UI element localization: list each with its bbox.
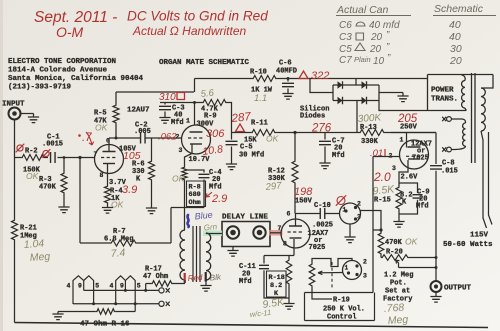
svg-text:Mfd: Mfd [416, 203, 429, 211]
R-8 label box 680 Ohm [187, 181, 206, 207]
wire primary bottom to R-17 [184, 280, 186, 283]
R-19 wiper arrow [318, 271, 343, 275]
svg-text:R-19: R-19 [333, 297, 350, 305]
svg-text:OK: OK [26, 171, 39, 181]
svg-text:R-20: R-20 [386, 249, 403, 257]
wire left rail to bottom [14, 241, 16, 323]
svg-text:C-8: C-8 [442, 160, 455, 168]
wire top rail [195, 78, 428, 80]
resistor R-9 [202, 100, 227, 106]
svg-text:Mfd: Mfd [171, 119, 184, 127]
svg-text:306: 306 [206, 128, 225, 140]
diode bridge rectangle [333, 85, 379, 101]
R-18 label box [267, 271, 287, 297]
svg-text:6: 6 [287, 211, 291, 218]
svg-text:R-5: R-5 [94, 110, 107, 118]
node plate rail [193, 101, 196, 104]
R-19 mechanical link dashed [331, 262, 333, 289]
svg-text:C-5: C-5 [240, 144, 253, 152]
R-19 enclosure box [305, 293, 375, 321]
red zero mark above C-1 [43, 150, 49, 156]
svg-text:ORGAN MATE SCHEMATIC: ORGAN MATE SCHEMATIC [159, 59, 250, 67]
svg-text:20: 20 [369, 44, 382, 55]
svg-text:Blk: Blk [209, 272, 222, 282]
tube V1 triode 12AU7a [95, 145, 124, 174]
capacitor C-5 filter [231, 133, 233, 140]
wire wiper to output [399, 267, 437, 269]
wire secondary top to delay line [205, 232, 207, 235]
diode D1 [338, 81, 343, 89]
svg-text:R-11: R-11 [251, 120, 268, 128]
socket S2 connector [343, 261, 362, 280]
ground at socket S1 [349, 224, 351, 237]
svg-text:40: 40 [449, 19, 461, 31]
resistor R-7 [80, 242, 171, 244]
wire V2 cathode down [185, 144, 193, 166]
svg-text:30 Mfd: 30 Mfd [239, 152, 264, 160]
power transformer box label [428, 75, 494, 111]
wire V3 plate to C-10 [296, 214, 340, 227]
ground at C-3 [159, 118, 170, 124]
capacitor C-10 [320, 208, 325, 219]
svg-text:Plain: Plain [354, 55, 371, 64]
svg-text:(213)-393-9719: (213)-393-9719 [8, 84, 72, 92]
wire socket S1 to volume network [361, 211, 382, 233]
tube V2 triode 12AU7b [182, 125, 211, 154]
svg-text:1: 1 [400, 137, 404, 144]
capacitor C-6 filter [287, 77, 290, 80]
svg-text:330K: 330K [361, 138, 379, 146]
input jack J1 [9, 108, 21, 120]
svg-text:4: 4 [67, 283, 71, 290]
capacitor C-11 [263, 256, 265, 264]
ground at bridge [402, 93, 404, 97]
capacitor C-1 [51, 152, 56, 163]
svg-text:20: 20 [449, 55, 462, 67]
svg-text:2: 2 [363, 259, 367, 266]
svg-text:POWER: POWER [431, 87, 454, 95]
svg-text:276: 276 [311, 123, 332, 135]
svg-text:Actual Ω Handwritten: Actual Ω Handwritten [132, 24, 247, 38]
svg-text:40: 40 [449, 31, 461, 43]
svg-text:2.9: 2.9 [211, 193, 227, 205]
heater terminal x2 [159, 301, 164, 306]
delay line connector right [253, 226, 265, 238]
svg-text:680: 680 [189, 191, 201, 199]
svg-text:O-M: O-M [56, 24, 84, 40]
svg-text:1: 1 [343, 207, 347, 214]
wire V4 plate lead [406, 133, 408, 148]
svg-text:20: 20 [370, 32, 383, 43]
output transformer secondary [206, 233, 211, 280]
resistor R-5 [115, 92, 117, 104]
svg-text:R-13: R-13 [360, 124, 377, 132]
wire V2 plate up to rail [194, 103, 196, 126]
svg-text:1814-A Colorado Avenue: 1814-A Colorado Avenue [8, 67, 108, 75]
svg-text:Diodes: Diodes [300, 113, 325, 121]
svg-text:Schematic: Schematic [434, 3, 484, 15]
wire V4 cathode [399, 160, 408, 186]
ground at R-4 [107, 204, 109, 208]
wire V4 grid [373, 156, 400, 158]
wire input down to grid line [14, 120, 16, 158]
svg-text:.062: .062 [158, 132, 177, 143]
diode D3 [338, 97, 343, 105]
resistor R-16 hum balance [58, 311, 135, 313]
wire cathode to output transformer [184, 181, 186, 230]
svg-text:R-18: R-18 [269, 274, 285, 282]
ground at input jack [33, 114, 35, 118]
svg-text:OK: OK [172, 174, 185, 184]
svg-text:198: 198 [294, 186, 313, 198]
svg-text:6.8 Meg: 6.8 Meg [104, 236, 133, 244]
red value 322 with triangle [299, 71, 308, 79]
svg-text:30: 30 [450, 43, 462, 55]
ground at C-7 [319, 163, 330, 169]
svg-text:C-6: C-6 [279, 60, 292, 68]
svg-text:.015: .015 [441, 168, 458, 176]
node C-7 junction [293, 131, 296, 134]
ground at C-5 [226, 164, 237, 170]
svg-text:Actual Can: Actual Can [336, 4, 389, 16]
red note 2.9 with arrow [206, 192, 212, 197]
resistor R-17 [146, 283, 185, 285]
svg-text:C6: C6 [339, 20, 352, 31]
svg-text:Mfd: Mfd [209, 184, 222, 192]
svg-text:8: 8 [283, 241, 287, 248]
svg-text:Ohm: Ohm [189, 199, 201, 207]
svg-text:470K: 470K [385, 239, 403, 247]
svg-text:Grn: Grn [203, 222, 218, 232]
svg-text:2: 2 [357, 201, 361, 208]
svg-text:1.1: 1.1 [254, 93, 267, 104]
resistor R-19 pot element [309, 263, 315, 287]
heater terminal x1 [159, 288, 164, 293]
dark wire tick Blk [205, 272, 207, 282]
svg-text:1.2 Meg: 1.2 Meg [384, 272, 413, 280]
svg-text:R-15: R-15 [374, 197, 391, 205]
wire bridge top to rail [355, 79, 357, 86]
diode D2 [362, 81, 367, 89]
svg-text:C5: C5 [339, 44, 352, 55]
ground at output transformer [200, 286, 211, 292]
wire V1 cathode [107, 164, 109, 186]
resistor R-11 [251, 130, 276, 136]
ground at R-3 [58, 207, 69, 213]
svg-text:2: 2 [176, 134, 180, 141]
transformer heater winding with terminals [447, 117, 452, 122]
svg-text:TRANS.: TRANS. [431, 96, 458, 104]
wire B+ rail2 C-3 to corner [160, 102, 202, 104]
svg-text:Meg: Meg [387, 314, 408, 327]
svg-text:470K: 470K [39, 184, 57, 192]
svg-text:310: 310 [159, 92, 176, 103]
node at R-3 tap [63, 156, 66, 159]
svg-text:287: 287 [230, 111, 252, 125]
resistor R-10 [252, 76, 277, 82]
socket S1 connector [340, 203, 361, 224]
R-19 pot wiring [312, 259, 352, 267]
wire secondary bottom to ground [205, 280, 207, 286]
svg-text:OUTPUT: OUTPUT [444, 285, 472, 293]
wire rail3 R-11 to R-13 [232, 132, 437, 134]
resistor R-4 [105, 185, 111, 204]
svg-text:322: 322 [311, 70, 329, 82]
svg-text:.01: .01 [370, 148, 383, 159]
ground at output jack [435, 292, 437, 297]
svg-text:Blue: Blue [194, 210, 213, 222]
svg-text:2.0: 2.0 [373, 170, 391, 184]
bottom rail wire [15, 323, 489, 328]
wire bridge bottom to transformer [379, 101, 466, 111]
svg-text:5.6: 5.6 [200, 88, 215, 100]
wire bridge right to ground [379, 92, 403, 94]
svg-text:3: 3 [363, 273, 367, 280]
wire bridge B+ takeoff to R-13 [356, 101, 358, 133]
ground at R-6 [146, 208, 157, 214]
svg-text:50-60 Watts: 50-60 Watts [443, 241, 493, 249]
resistor R-12 [294, 133, 296, 161]
heater wire upper [84, 289, 159, 291]
resistor R-2 [21, 155, 45, 161]
svg-text:250V: 250V [400, 124, 418, 132]
svg-text:8.2: 8.2 [270, 282, 282, 290]
resistor R-8 cathode [182, 166, 187, 181]
heater winding tube V1 pins 4 9 5 [73, 276, 94, 304]
green highlighted wire to delay line [203, 231, 222, 237]
resistor R-15 [396, 186, 402, 210]
svg-text:47 Ohm R-16: 47 Ohm R-16 [80, 321, 130, 329]
wire plate line to C-2 and V2 grid [109, 137, 182, 139]
wire plate rail V4 [391, 132, 436, 134]
svg-text:Meg: Meg [29, 251, 50, 264]
transformer core [472, 73, 476, 163]
svg-text:R-21: R-21 [20, 225, 37, 233]
capacitor C-2 [141, 133, 146, 144]
svg-text:DELAY LINE: DELAY LINE [222, 214, 268, 222]
ground at R-16 [57, 312, 59, 315]
svg-text:9: 9 [120, 283, 124, 290]
svg-text:.768: .768 [383, 302, 404, 315]
output jack J2 [431, 281, 442, 292]
svg-text:7025: 7025 [309, 244, 326, 252]
svg-text:.005: .005 [134, 128, 151, 136]
resistor 470K R-20 upper [378, 232, 384, 255]
capacitor C-8 coupling [435, 133, 437, 165]
red wire tick [184, 273, 186, 283]
svg-text:3.9: 3.9 [122, 184, 137, 196]
svg-text:300K: 300K [357, 112, 382, 125]
delay line connector left [227, 226, 239, 238]
svg-text:R-2: R-2 [25, 148, 38, 156]
node R-5 to plate [115, 137, 118, 140]
svg-text:1: 1 [345, 265, 349, 272]
R-20 wiper arrow [396, 260, 399, 267]
wire down to R-7 rail [170, 208, 172, 244]
svg-text:OK: OK [266, 134, 279, 144]
svg-text:Pot.: Pot. [390, 280, 407, 288]
ground at C-6 [282, 94, 293, 100]
svg-text:7: 7 [94, 151, 98, 158]
wire left rail down to R-21 [14, 158, 16, 220]
svg-text:12AU7: 12AU7 [127, 107, 150, 115]
svg-text:8: 8 [100, 172, 104, 179]
output transformer core [193, 226, 200, 282]
wire C-4 bottom to bias rail [171, 207, 204, 209]
svg-text:Santa Monica, California 90404: Santa Monica, California 90404 [8, 75, 144, 83]
wire rail to bridge [310, 79, 333, 93]
red note .7 with arrow [78, 134, 81, 137]
wire V1 plate up [108, 138, 110, 152]
svg-text:Mfd: Mfd [332, 152, 345, 160]
svg-text:9: 9 [78, 283, 82, 290]
ground at R-18 [283, 304, 294, 310]
svg-text:R-9: R-9 [204, 113, 217, 121]
output transformer T1 primary [180, 230, 185, 280]
line cord leads [481, 131, 487, 228]
svg-text:C7: C7 [339, 55, 352, 66]
svg-text:4: 4 [110, 283, 114, 290]
capacitor C-7 [324, 133, 326, 140]
svg-text:Mfd: Mfd [239, 278, 252, 286]
svg-text:.0025: .0025 [312, 222, 333, 230]
svg-text:5: 5 [137, 283, 141, 290]
node grid junction [78, 156, 81, 159]
red highlighted wire delay out to V3 grid [269, 230, 283, 236]
delay line box [222, 222, 270, 247]
svg-text:115V: 115V [470, 232, 489, 240]
svg-text:C-10: C-10 [314, 202, 331, 210]
diode D4 [362, 97, 367, 105]
heater winding tube V3 pins 4 9 5 [116, 276, 136, 312]
transformer HV secondary winding [461, 75, 465, 81]
svg-text:40 mfd: 40 mfd [369, 20, 400, 31]
svg-text:7.4: 7.4 [110, 247, 126, 260]
svg-text:C3: C3 [339, 32, 352, 43]
svg-text:OK: OK [95, 123, 108, 133]
resistor R-3 [63, 158, 65, 173]
svg-text:250 K Vol.: 250 K Vol. [323, 306, 365, 314]
tube V3 triode 12AX7 [281, 219, 310, 248]
ground at delay line [232, 247, 234, 251]
ground at R-15 [398, 210, 400, 222]
svg-text:7025: 7025 [412, 155, 429, 163]
svg-text:.0015: .0015 [42, 141, 63, 149]
svg-text:5: 5 [95, 283, 99, 290]
wire R-20 to output line [409, 257, 436, 259]
tube V4 triode 12AX7 [400, 140, 429, 169]
svg-text:R-10: R-10 [250, 69, 267, 77]
svg-text:40MFD: 40MFD [276, 68, 297, 76]
resistor R-20 pot element [380, 255, 382, 258]
resistor R-18 [288, 256, 290, 260]
svg-text:10: 10 [373, 56, 385, 67]
heater wire lower [73, 303, 159, 305]
svg-text:3: 3 [357, 214, 361, 221]
svg-text:Set at: Set at [385, 288, 410, 296]
resistor R-13 [359, 130, 385, 136]
capacitor C-3 filter [164, 103, 166, 105]
transformer primary 115V winding [481, 75, 493, 89]
wire node down to R-7 rail [79, 158, 81, 244]
svg-text:1.04: 1.04 [23, 238, 44, 251]
svg-text:Red: Red [187, 273, 203, 283]
resistor R-21 [12, 219, 18, 241]
svg-text:OK: OK [405, 237, 418, 247]
wire V4 grid drop to volume control [372, 157, 374, 293]
svg-text:297: 297 [264, 180, 283, 193]
wire jack to ground [21, 113, 34, 115]
wire B+ feed over V1 [116, 91, 194, 93]
svg-text:9.5K: 9.5K [372, 183, 396, 197]
wire grid line with R-2 C-1 [15, 157, 96, 159]
svg-text:1: 1 [186, 118, 190, 125]
svg-text:ELECTRO TONE CORPORATION: ELECTRO TONE CORPORATION [8, 58, 116, 66]
svg-text:3: 3 [179, 147, 183, 154]
resistor R-6 grid leak V2 [151, 138, 153, 160]
capacitor C-9 bypass [399, 183, 418, 193]
svg-text:DC Volts to Gnd in Red: DC Volts to Gnd in Red [127, 9, 268, 24]
red zero mark at C-10 [337, 197, 345, 205]
svg-text:Control: Control [327, 314, 356, 322]
wire V3 cathode down [264, 239, 294, 256]
capacitor C-4 cathode bypass [185, 170, 205, 173]
svg-text:3: 3 [392, 165, 396, 172]
wire R-17 down to heater line [145, 284, 147, 291]
svg-text:150V: 150V [295, 198, 313, 206]
svg-text:2.6V: 2.6V [401, 174, 419, 182]
svg-text:47 Ohm: 47 Ohm [143, 273, 168, 281]
blue ink mark [187, 215, 188, 227]
red zero mark above R-2 [17, 145, 23, 151]
